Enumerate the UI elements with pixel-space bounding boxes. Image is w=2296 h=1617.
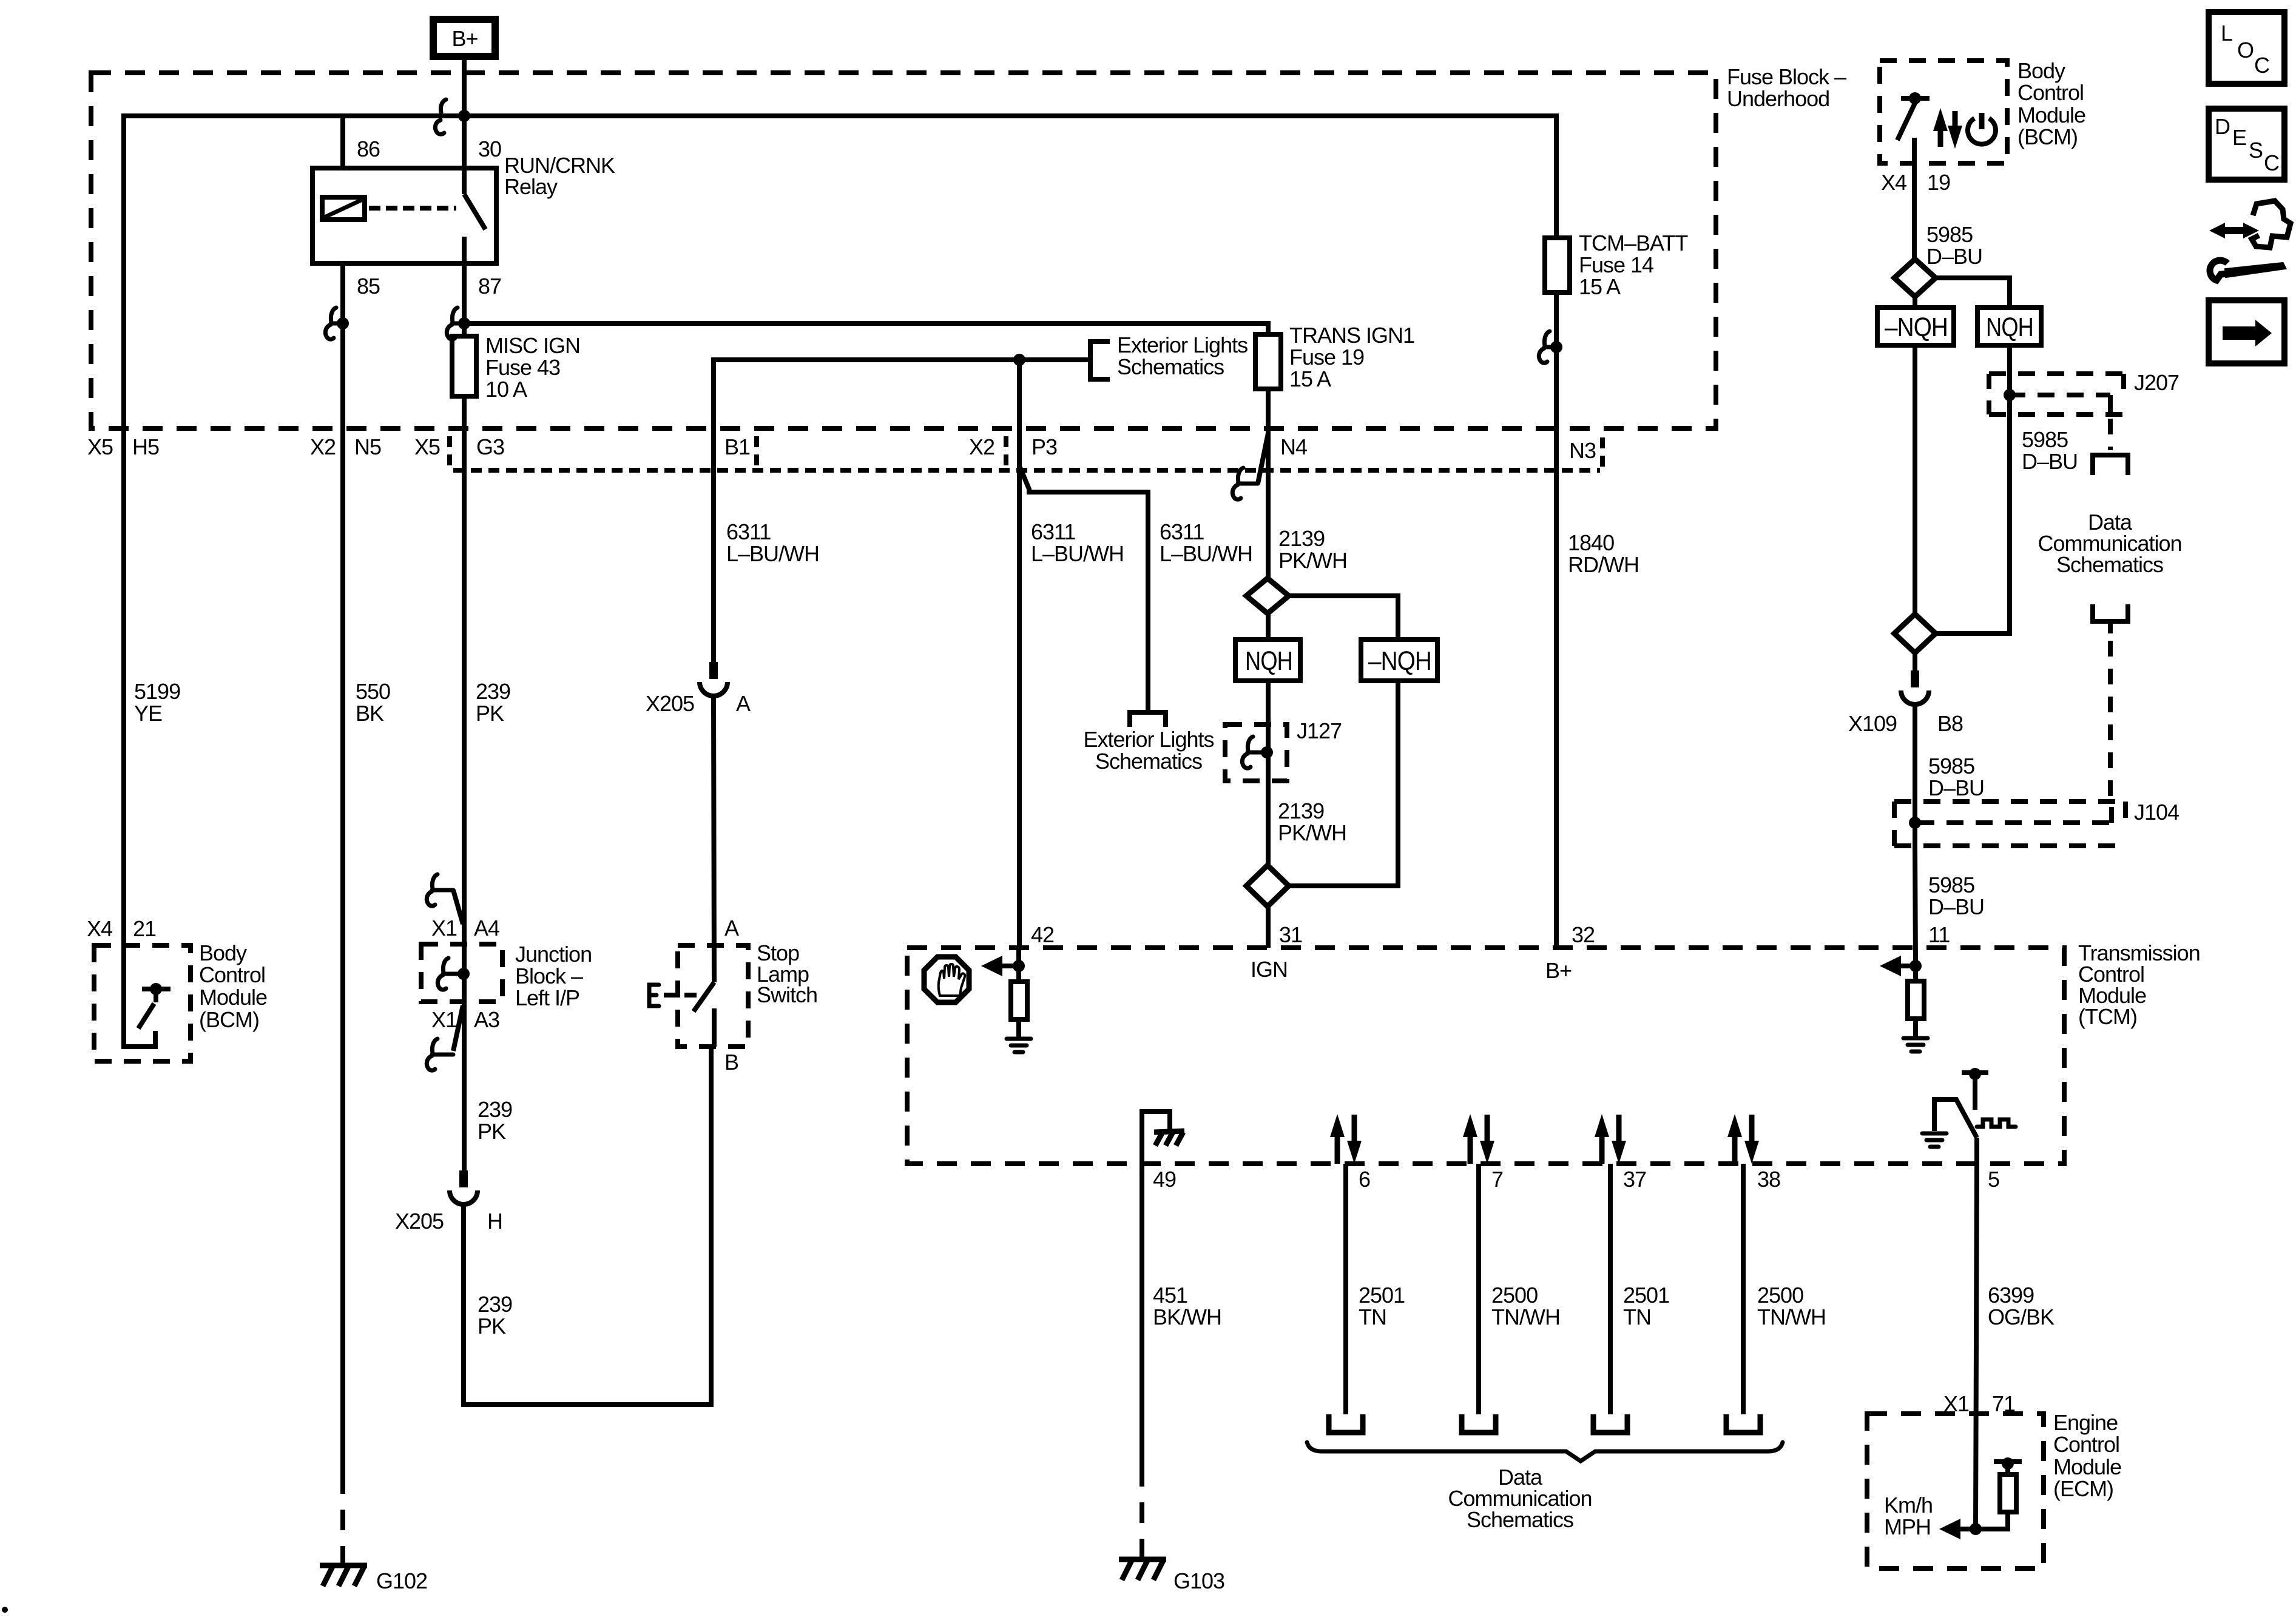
label transmission control module: [2078, 940, 2200, 1029]
off-page bracket exterior lights top: [1090, 342, 1110, 379]
wire TCM 6: [1343, 1164, 1348, 1414]
svg-text:Junction: Junction: [515, 942, 592, 967]
dashed link J207 to data bracket: [2108, 419, 2113, 450]
CAN arrows pin 6: [1330, 1114, 1362, 1164]
fuse TRANS IGN1 Fuse 19: [1255, 334, 1281, 389]
wire diamond to -NQH right: [1913, 297, 1917, 308]
wire label 5199 YE: [134, 679, 180, 726]
TCM 5 internal TOSS switch: [1934, 1073, 1988, 1138]
svg-text:MPH: MPH: [1884, 1514, 1931, 1539]
svg-text:B+: B+: [1545, 958, 1572, 983]
arrow into TCM 11: [1880, 956, 1916, 976]
off-page bracket data comm bottom: [2093, 604, 2128, 621]
relay coil: [322, 197, 365, 220]
label X1 71: [1943, 1391, 2015, 1416]
BCM updown arrows: [1933, 108, 1962, 149]
svg-text:D–BU: D–BU: [2022, 449, 2078, 474]
wire -NQH to lower diamond: [1289, 681, 1398, 886]
label X4 19: [1881, 170, 1950, 195]
svg-text:B1: B1: [724, 434, 750, 459]
svg-text:A3: A3: [474, 1007, 499, 1032]
terminator pin 6: [1329, 1414, 1363, 1433]
ground G102: [320, 1565, 367, 1586]
svg-text:42: 42: [1031, 922, 1054, 947]
junction dot in junction block: [458, 968, 470, 980]
svg-text:Left I/P: Left I/P: [515, 985, 579, 1010]
BCM power icon: [1968, 113, 1996, 144]
svg-text:NQH: NQH: [1986, 312, 2033, 342]
svg-text:PK: PK: [476, 701, 504, 726]
wire diamond branch to NQH right: [1936, 278, 2010, 308]
wire label 2139 PK/WH: [1278, 526, 1347, 573]
splice J207 dashed box: [1989, 374, 2124, 414]
connector hook in J127: [1242, 737, 1267, 768]
label data communication schematics bottom: [1448, 1465, 1592, 1532]
svg-text:TN/WH: TN/WH: [1491, 1305, 1560, 1329]
stop hand octagon: [924, 957, 969, 1002]
svg-text:E: E: [2232, 125, 2246, 150]
svg-text:J104: J104: [2134, 800, 2179, 825]
wire bus B+ horizontal: [124, 116, 1556, 947]
wire BCM 19 (5985): [1912, 163, 1917, 260]
connector X109 pin B8: [1901, 670, 1929, 704]
svg-text:1840: 1840: [1568, 530, 1614, 555]
svg-text:X4: X4: [1881, 170, 1906, 195]
wire label 5985 D-BU above J104: [1928, 754, 1984, 800]
svg-text:H: H: [487, 1209, 502, 1234]
svg-text:L–BU/WH: L–BU/WH: [726, 541, 819, 566]
wire TCM 38: [1741, 1164, 1746, 1414]
connector row labels: [87, 434, 1596, 463]
wire relay pin 30: [462, 116, 467, 168]
wire diamond to NQH: [1266, 613, 1271, 640]
diamond splice upper 2139: [1246, 578, 1289, 613]
terminator pin 38: [1726, 1414, 1760, 1433]
svg-text:30: 30: [478, 137, 501, 161]
ground TCM 42 internal: [1007, 1039, 1031, 1052]
TCM internal pin names: [1251, 957, 1572, 983]
wire 550 BK dashed to ground: [340, 1494, 345, 1563]
wire label 6399 OG/BK: [1988, 1283, 2055, 1329]
junction dot node P3: [1013, 354, 1025, 366]
off-page bracket data comm top: [2093, 455, 2128, 475]
wire label 2500 TN/WH: [1491, 1283, 1560, 1329]
wire label 5985 D-BU pin19: [1926, 222, 1982, 269]
junction dot J104: [1909, 817, 1921, 829]
connector hook on 85 wire: [325, 308, 343, 339]
svg-text:87: 87: [478, 274, 501, 299]
svg-text:C: C: [2254, 53, 2269, 78]
svg-text:X5: X5: [87, 434, 113, 459]
label fuse block underhood: [1727, 64, 1846, 111]
svg-text:21: 21: [133, 916, 156, 941]
svg-text:BK/WH: BK/WH: [1153, 1305, 1221, 1329]
BCM lower-left dashed box: [94, 945, 191, 1061]
label km/h mph: [1884, 1493, 1933, 1539]
svg-text:X1: X1: [431, 1007, 457, 1032]
TCM top pin labels: [1031, 922, 1950, 947]
brace data communication: [1307, 1442, 1783, 1461]
relay RUN/CRNK box: [312, 168, 496, 263]
BCM internal circuit: [124, 945, 171, 1047]
label stop lamp switch pins: [724, 916, 739, 1075]
svg-text:Schematics: Schematics: [1117, 354, 1224, 379]
junction dot TCM 11: [1909, 960, 1922, 972]
wire TCM 49 to G103 (451): [1140, 1164, 1144, 1487]
svg-text:2139: 2139: [1278, 798, 1324, 823]
svg-text:6311: 6311: [1160, 519, 1204, 544]
svg-text:32: 32: [1572, 922, 1595, 947]
svg-text:O: O: [2237, 38, 2254, 62]
svg-text:19: 19: [1927, 170, 1950, 195]
wire TCM 37: [1608, 1164, 1613, 1414]
junction block left IP dashed box: [421, 944, 502, 1002]
svg-text:11: 11: [1928, 922, 1950, 947]
junction dot ECM speed node: [1970, 1523, 1982, 1535]
svg-text:N3: N3: [1569, 438, 1596, 463]
svg-text:J207: J207: [2134, 370, 2179, 395]
connector X1 A4 jog: [432, 890, 463, 924]
svg-text:Fuse Block –: Fuse Block –: [1727, 64, 1846, 89]
svg-text:H5: H5: [132, 434, 159, 459]
svg-text:YE: YE: [134, 701, 162, 726]
svg-text:X109: X109: [1848, 711, 1897, 736]
svg-text:Control: Control: [199, 962, 265, 987]
wire label 5985 D-BU below J104: [1928, 873, 1984, 919]
svg-text:5985: 5985: [1926, 222, 1973, 247]
wire J104 to TCM 11: [1915, 846, 1916, 966]
wire TCM 5 to ECM (6399): [1976, 1138, 1977, 1529]
wire fuse19 output 2139: [1266, 389, 1271, 578]
junction node B+: [458, 110, 470, 122]
connector hook N4: [1232, 468, 1243, 499]
svg-text:X205: X205: [395, 1209, 444, 1234]
svg-text:PK/WH: PK/WH: [1278, 820, 1346, 845]
junction dot 87 wire: [458, 317, 470, 329]
label TCM-BATT fuse 14: [1579, 231, 1688, 299]
-NQH box right: [1877, 308, 1954, 345]
svg-text:5985: 5985: [2022, 427, 2068, 452]
label TRANS IGN1 fuse 19: [1289, 323, 1414, 391]
connector hook on bus: [435, 100, 446, 134]
svg-text:5985: 5985: [1928, 754, 1974, 778]
off-page bracket exterior lights lower: [1130, 712, 1166, 727]
svg-text:10 A: 10 A: [485, 377, 527, 402]
svg-text:5985: 5985: [1928, 873, 1974, 897]
svg-text:PK: PK: [478, 1314, 506, 1338]
wire label 1840 RD/WH: [1568, 530, 1639, 577]
svg-text:Switch: Switch: [757, 982, 817, 1007]
svg-text:239: 239: [478, 1292, 512, 1317]
svg-text:N5: N5: [354, 434, 381, 459]
arrow km/h mph: [1939, 1519, 1976, 1539]
wire label 239 PK: [476, 679, 510, 726]
battery terminal B+: [433, 19, 495, 56]
bracket stem: [2108, 621, 2113, 633]
svg-text:B+: B+: [451, 26, 478, 51]
label MISC IGN fuse 43: [485, 333, 580, 402]
connector X205 pin H: [450, 1170, 478, 1204]
junction dot J207: [2004, 389, 2016, 401]
svg-text:PK: PK: [478, 1119, 506, 1144]
svg-text:Control: Control: [2017, 80, 2084, 105]
svg-text:A: A: [724, 916, 739, 940]
CAN arrows pin 7: [1463, 1114, 1494, 1164]
junction dot BCM switch upper: [1909, 92, 1921, 104]
BCM upper-right dashed box: [1880, 61, 2007, 163]
svg-text:N4: N4: [1280, 434, 1307, 459]
wire label 239 PK below junction block: [478, 1097, 512, 1144]
icon LOC box: [2209, 12, 2284, 84]
brake pedal linkage E: [649, 985, 698, 1006]
wire TCM 42 internal: [1016, 948, 1021, 966]
junction dot J127: [1261, 746, 1273, 758]
wire NQH to J127: [1266, 681, 1271, 865]
terminator pin 37: [1593, 1414, 1627, 1433]
svg-text:B8: B8: [1937, 711, 1963, 736]
label X1 A3: [431, 1007, 499, 1032]
label X109 B8: [1848, 711, 1963, 736]
svg-text:37: 37: [1623, 1167, 1646, 1192]
svg-text:Engine: Engine: [2053, 1410, 2118, 1435]
connector hook on 87 wire: [447, 308, 464, 339]
ECM internal resistor: [1976, 1462, 2022, 1529]
connector hook inside junction block: [437, 958, 464, 990]
resistor TCM 42: [1011, 966, 1027, 1038]
CAN arrows pin 38: [1727, 1114, 1759, 1164]
svg-text:Exterior Lights: Exterior Lights: [1117, 333, 1248, 357]
svg-text:(TCM): (TCM): [2078, 1004, 2137, 1029]
svg-text:451: 451: [1153, 1283, 1187, 1308]
wire label 2501 TN second: [1623, 1283, 1669, 1329]
wire P3 to TCM 42 (6311): [1017, 360, 1022, 948]
svg-text:C: C: [2264, 150, 2279, 175]
wire label 550 BK: [356, 679, 390, 726]
junction dot TOSS: [1969, 1068, 1981, 1080]
ground TOSS internal: [1922, 1133, 1947, 1147]
svg-text:Body: Body: [2017, 58, 2065, 83]
label X1 A4: [431, 916, 499, 940]
svg-text:TCM–BATT: TCM–BATT: [1579, 231, 1688, 255]
-NQH box: [1361, 640, 1437, 681]
svg-text:Underhood: Underhood: [1727, 86, 1829, 111]
svg-text:X1: X1: [1943, 1391, 1969, 1416]
connector X1 A3 jog: [432, 1005, 463, 1055]
svg-text:D–BU: D–BU: [1928, 894, 1984, 919]
BCM switch symbol: [1897, 98, 1930, 163]
wire diamond to TCM 31: [1266, 906, 1271, 948]
connector hook on 1840 wire: [1539, 331, 1556, 363]
wire NQH down through J207: [1936, 345, 2010, 633]
svg-text:Module: Module: [199, 985, 267, 1010]
svg-text:OG/BK: OG/BK: [1988, 1305, 2055, 1329]
connector row fine dashed line: [453, 468, 1600, 473]
svg-text:L–BU/WH: L–BU/WH: [1160, 541, 1252, 566]
svg-text:PK/WH: PK/WH: [1278, 548, 1347, 573]
svg-text:Block –: Block –: [515, 964, 583, 988]
label stop lamp switch: [757, 940, 817, 1007]
wire branch to exterior lights below: [1020, 467, 1148, 710]
svg-text:BK: BK: [356, 701, 384, 726]
svg-text:2500: 2500: [1757, 1283, 1803, 1308]
svg-text:Body: Body: [199, 940, 247, 965]
svg-text:P3: P3: [1032, 434, 1057, 459]
square wave symbol: [1977, 1119, 2016, 1127]
svg-text:Control: Control: [2053, 1432, 2119, 1457]
svg-text:S: S: [2249, 138, 2263, 163]
wire TCM 7: [1476, 1164, 1481, 1414]
svg-text:71: 71: [1992, 1391, 2015, 1416]
wire -NQH down to diamond lower: [1913, 345, 1917, 615]
chassis ground TCM 49: [1154, 1131, 1184, 1146]
svg-text:6399: 6399: [1988, 1283, 2034, 1308]
svg-text:86: 86: [357, 137, 380, 161]
svg-text:550: 550: [356, 679, 390, 704]
svg-text:(BCM): (BCM): [199, 1007, 259, 1032]
svg-text:Schematics: Schematics: [1467, 1507, 1573, 1532]
connector jog N4: [1238, 433, 1268, 484]
wire label 5985 D-BU below J207: [2022, 427, 2078, 474]
wire label 2139 PK/WH below J127: [1278, 798, 1346, 845]
wire B+ to fuse block: [462, 59, 467, 116]
wire label 239 PK below X205: [478, 1292, 512, 1338]
wire relay 85 to G102 (550 BK): [340, 263, 345, 1494]
svg-text:85: 85: [357, 274, 380, 299]
svg-text:239: 239: [478, 1097, 512, 1122]
label exterior lights schematics top: [1117, 333, 1248, 379]
svg-text:2139: 2139: [1278, 526, 1325, 551]
NQH box: [1235, 640, 1300, 681]
junction dot TCM 42: [1013, 960, 1025, 972]
svg-text:(ECM): (ECM): [2053, 1476, 2113, 1501]
svg-text:Schematics: Schematics: [1095, 749, 1202, 774]
label engine control module: [2053, 1410, 2121, 1501]
junction dot BCM switch: [150, 983, 162, 995]
svg-text:Fuse 14: Fuse 14: [1579, 252, 1653, 277]
svg-text:IGN: IGN: [1251, 957, 1288, 982]
svg-text:NQH: NQH: [1245, 646, 1292, 676]
svg-text:L–BU/WH: L–BU/WH: [1031, 541, 1124, 566]
svg-text:B: B: [724, 1050, 738, 1075]
splice J127 dashed box: [1225, 724, 1287, 781]
ECM dashed box: [1867, 1414, 2044, 1568]
label data communication schematics right: [2038, 510, 2181, 577]
label body control module lower: [199, 940, 267, 1032]
wire label 451 BK/WH: [1153, 1283, 1221, 1329]
relay coil-switch dashed link: [369, 206, 456, 211]
connector hook X1 A4: [427, 874, 437, 906]
svg-text:Fuse 19: Fuse 19: [1289, 345, 1364, 370]
diamond splice upper 5985: [1894, 259, 1936, 297]
label exterior lights schematics lower: [1083, 727, 1214, 774]
svg-text:Schematics: Schematics: [2056, 552, 2163, 577]
wire fuse14 output 1840: [1554, 292, 1559, 948]
TCM dashed box: [907, 948, 2064, 1164]
svg-text:G3: G3: [476, 434, 504, 459]
fuse block internal node line: [714, 360, 1088, 662]
svg-text:TN/WH: TN/WH: [1757, 1305, 1826, 1329]
svg-text:2501: 2501: [1359, 1283, 1405, 1308]
svg-text:MISC IGN: MISC IGN: [485, 333, 580, 358]
svg-text:31: 31: [1279, 922, 1302, 947]
stop lamp switch dashed box: [678, 945, 748, 1047]
wire 87 branch to fuse 19: [464, 323, 1268, 334]
connector row tick marks: [450, 436, 1602, 467]
svg-text:Module: Module: [2017, 103, 2085, 127]
connector hook X1 A3: [427, 1039, 437, 1070]
svg-text:X2: X2: [310, 434, 336, 459]
svg-text:15 A: 15 A: [1289, 366, 1331, 391]
svg-text:6: 6: [1359, 1167, 1370, 1192]
diamond splice lower 5985: [1894, 614, 1936, 653]
svg-text:D–BU: D–BU: [1926, 244, 1982, 269]
svg-text:(BCM): (BCM): [2017, 124, 2078, 149]
label junction block: [515, 942, 592, 1010]
svg-text:RD/WH: RD/WH: [1568, 552, 1639, 577]
junction dot 85 wire: [337, 317, 349, 329]
svg-text:Exterior Lights: Exterior Lights: [1083, 727, 1214, 752]
icon arrow box: [2209, 300, 2284, 363]
svg-text:X4: X4: [87, 916, 112, 941]
NQH box right: [1977, 308, 2041, 345]
wire label 2501 TN: [1359, 1283, 1405, 1329]
relay switch: [464, 168, 485, 263]
wire relay pin 86: [340, 116, 345, 168]
wire relay 87 down: [462, 263, 467, 336]
svg-text:5199: 5199: [134, 679, 180, 704]
svg-text:X2: X2: [969, 434, 994, 459]
TCM 49 internal ground loop: [1142, 1112, 1170, 1164]
wire diamond branch to -NQH: [1289, 596, 1398, 640]
svg-text:TN: TN: [1623, 1305, 1651, 1329]
fuse MISC IGN Fuse 43: [452, 336, 476, 396]
dashed link bracket to J104: [2108, 641, 2113, 802]
svg-text:J127: J127: [1297, 718, 1342, 743]
svg-text:15 A: 15 A: [1579, 274, 1621, 299]
svg-text:Km/h: Km/h: [1884, 1493, 1933, 1517]
diamond splice lower 2139: [1246, 865, 1289, 906]
icon diagnostic arrow wrench: [2209, 201, 2291, 280]
svg-text:X5: X5: [414, 434, 440, 459]
splice J104 dashed box: [1894, 802, 2125, 846]
svg-text:G102: G102: [376, 1568, 427, 1593]
svg-text:D: D: [2215, 114, 2230, 139]
arrow into TCM 42: [981, 956, 1019, 976]
label X4 21: [87, 916, 156, 941]
svg-text:TRANS IGN1: TRANS IGN1: [1289, 323, 1414, 348]
wire label 6311 L-BU/WH at P3: [1031, 519, 1124, 566]
fuse block underhood dashed box: [91, 73, 1716, 428]
junction dot ECM resistor top: [2002, 1457, 2014, 1470]
CAN arrows pin 37: [1595, 1114, 1626, 1164]
svg-text:D–BU: D–BU: [1928, 775, 1984, 800]
svg-text:X1: X1: [431, 916, 457, 940]
page dot: [2, 1607, 8, 1613]
svg-text:Fuse 43: Fuse 43: [485, 355, 560, 380]
resistor TCM 11: [1908, 966, 1924, 1037]
svg-text:–NQH: –NQH: [1885, 312, 1948, 342]
svg-text:Relay: Relay: [504, 174, 558, 199]
wire diamond to X109: [1913, 653, 1917, 670]
svg-text:L: L: [2221, 21, 2232, 46]
svg-text:A: A: [736, 691, 751, 716]
ground G103: [1119, 1559, 1166, 1580]
svg-text:–NQH: –NQH: [1368, 646, 1431, 676]
svg-text:A4: A4: [474, 916, 499, 940]
label X205 H: [395, 1209, 502, 1234]
svg-text:7: 7: [1491, 1167, 1503, 1192]
svg-text:2500: 2500: [1491, 1283, 1538, 1308]
